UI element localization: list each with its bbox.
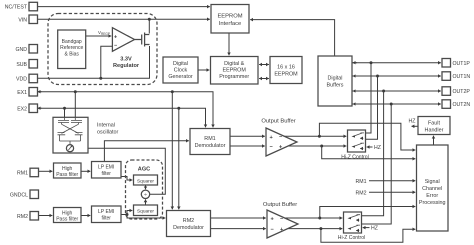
svg-text:Internal: Internal xyxy=(97,123,115,129)
wire Hi-Z 1 output A to OUT1P line xyxy=(366,63,372,133)
svg-text:& Bias: & Bias xyxy=(64,52,79,58)
svg-text:EX1: EX1 xyxy=(17,90,27,96)
svg-text:filter: filter xyxy=(101,216,111,222)
svg-text:filter: filter xyxy=(101,171,111,177)
wire digital buffers to EEPROM interface xyxy=(250,20,334,56)
svg-text:Squarer: Squarer xyxy=(137,209,154,215)
signal channel error processing box xyxy=(417,145,449,231)
wire Hi-Z 1 output B to OUT1N line xyxy=(366,76,378,139)
node EX1-oscillator junction xyxy=(74,90,77,93)
wire EX2 to oscillator xyxy=(64,108,66,117)
svg-text:+: + xyxy=(114,34,117,40)
AGC dashed enclosure xyxy=(126,160,163,219)
oscillator tail current source xyxy=(66,145,73,152)
pin OUT1N xyxy=(442,72,451,81)
svg-text:÷: ÷ xyxy=(144,192,147,198)
svg-text:Demodulator: Demodulator xyxy=(173,225,204,231)
svg-text:OUT1N: OUT1N xyxy=(453,74,471,80)
wire LP EMI 1 to squarer 1 xyxy=(121,177,132,181)
svg-text:Fault: Fault xyxy=(428,120,440,126)
svg-text:Error: Error xyxy=(426,193,438,199)
Hi-Z control 2 switches xyxy=(348,215,361,231)
svg-text:Buffers: Buffers xyxy=(327,83,344,89)
svg-text:OUT2P: OUT2P xyxy=(453,89,471,95)
svg-text:OUT1P: OUT1P xyxy=(453,61,471,67)
wire EX2 drop to RM2 demodulator xyxy=(178,108,180,209)
wire EX1 line xyxy=(38,91,42,93)
wire RM2 to high pass filter 2 xyxy=(39,215,53,217)
wire VDD rail xyxy=(38,46,150,78)
svg-text:Regulator: Regulator xyxy=(113,63,140,69)
svg-text:Hi-Z Control: Hi-Z Control xyxy=(341,154,368,160)
wire RM1 to high pass filter xyxy=(39,170,53,172)
internal oscillator box xyxy=(53,117,88,153)
svg-text:Pass filter: Pass filter xyxy=(56,217,78,223)
svg-text:Hi-Z Control: Hi-Z Control xyxy=(338,235,365,241)
node OUT2N junction xyxy=(390,103,393,106)
svg-text:NC/TEST: NC/TEST xyxy=(5,5,28,11)
squarer 2 box xyxy=(134,205,158,216)
pin RM2 xyxy=(30,212,39,221)
wire channel1 sense A to signal processor xyxy=(319,123,415,150)
node buffer2 out B junction xyxy=(319,227,322,230)
wire OUT2N line xyxy=(352,103,441,105)
svg-text:EEPROM: EEPROM xyxy=(274,72,298,78)
svg-text:oscillator: oscillator xyxy=(97,130,118,136)
wire OUT2P bus to Hi-Z control 2 xyxy=(362,91,384,216)
svg-text:OUT2N: OUT2N xyxy=(453,102,471,108)
pin GNDCL xyxy=(30,190,39,199)
node VIN-regulator junction xyxy=(148,18,151,21)
wire squarer1 to divider xyxy=(145,185,147,189)
pin OUT1P xyxy=(442,59,451,68)
pin OUT2P xyxy=(442,87,451,96)
wire channel2 sense A to signal processor xyxy=(320,207,416,219)
node OUT1P junction xyxy=(370,61,373,64)
regulator dashed enclosure xyxy=(48,14,157,85)
wire OUT2P line xyxy=(352,90,441,92)
svg-text:GND: GND xyxy=(15,47,27,53)
digital clock generator box xyxy=(163,57,198,83)
LP EMI filter 1 box xyxy=(92,162,122,179)
wire programmer-EEPROM bus A xyxy=(259,64,269,66)
node LP2 fork junction xyxy=(126,213,129,216)
svg-text:RM1: RM1 xyxy=(17,171,28,177)
squarer 1 box xyxy=(134,175,158,185)
output buffer 2 amplifier xyxy=(267,210,298,238)
svg-text:Output Buffer: Output Buffer xyxy=(263,202,297,208)
svg-text:HZ: HZ xyxy=(409,119,416,125)
svg-text:Programmer: Programmer xyxy=(219,74,249,80)
svg-text:VDD: VDD xyxy=(16,77,27,83)
wire OUT2N bus to Hi-Z control 2 xyxy=(362,104,392,224)
svg-text:Processing: Processing xyxy=(419,200,446,206)
svg-text:Squarer: Squarer xyxy=(137,178,154,184)
wire MOSFET drain to VIN xyxy=(148,19,150,33)
wire EX2 line xyxy=(38,107,42,109)
wire LP EMI 2 fork xyxy=(121,211,132,215)
oscillator cross-coupled pair xyxy=(58,117,83,144)
digital and EEPROM programmer box xyxy=(211,57,259,85)
transistor Q1 pass MOSFET xyxy=(135,33,150,47)
wire signal processor to fault handler xyxy=(433,136,435,145)
node buffer1 out B junction xyxy=(320,145,323,148)
node buffer1 out A junction xyxy=(318,135,321,138)
pin GND xyxy=(29,45,38,54)
svg-text:16 x 16: 16 x 16 xyxy=(277,64,295,70)
svg-text:Handler: Handler xyxy=(425,127,444,133)
output buffer 1 amplifier xyxy=(266,128,297,156)
wire squarer2 to divider xyxy=(145,199,147,205)
fault handler box xyxy=(418,117,450,135)
svg-text:Output Buffer: Output Buffer xyxy=(261,119,295,125)
op-amp U1 3.3V regulator xyxy=(112,28,134,52)
wire RM1 demod outputs to output buffer 1 xyxy=(230,135,265,137)
wire OUT1P line xyxy=(352,62,441,64)
svg-text:Signal: Signal xyxy=(425,179,440,185)
svg-text:VREGP: VREGP xyxy=(98,30,110,36)
node buffer2 out A junction xyxy=(318,217,321,220)
high pass filter 2 box xyxy=(54,208,82,223)
svg-text:LP EMI: LP EMI xyxy=(98,209,114,215)
wire LP EMI 1 to RM1 demodulator xyxy=(104,141,188,162)
wire bandgap to op-amp non-inverting input xyxy=(86,35,111,37)
svg-text:3.3V: 3.3V xyxy=(120,57,132,63)
wire LP EMI 2 to RM2 demodulator xyxy=(127,215,165,219)
wire regulator feedback to op-amp inverting input xyxy=(101,46,113,78)
wire HZ stub into Hi-Z control 1 xyxy=(367,146,373,148)
pin NC/TEST xyxy=(29,2,38,11)
svg-text:Generator: Generator xyxy=(168,74,192,80)
AGC divider xyxy=(141,190,149,198)
svg-text:Clock: Clock xyxy=(174,68,188,74)
svg-text:EEPROM: EEPROM xyxy=(217,14,242,20)
node OUT2P junction xyxy=(382,90,385,93)
svg-text:Channel: Channel xyxy=(422,186,442,192)
svg-text:LP EMI: LP EMI xyxy=(98,165,114,171)
node VDD feedback junction xyxy=(99,77,102,80)
svg-text:Pass filter: Pass filter xyxy=(56,172,78,178)
pin EX2 xyxy=(29,104,38,113)
Hi-Z control 1 switches xyxy=(352,133,365,149)
wire HP1 to LP EMI 1 xyxy=(81,170,90,172)
wire RM2 demod outputs to output buffer 2 xyxy=(211,217,266,219)
16x16 EEPROM box xyxy=(270,57,302,84)
svg-text:VIN: VIN xyxy=(18,17,27,23)
wire EX1 drop to RM2 demodulator xyxy=(171,92,173,210)
svg-text:Digital: Digital xyxy=(173,61,188,67)
svg-text:EX2: EX2 xyxy=(17,106,27,112)
wire output buffer 1 outputs to Hi-Z control 1 xyxy=(284,135,346,137)
wire RM2 stub to signal processor xyxy=(369,191,415,193)
digital buffers box xyxy=(318,56,352,106)
wire RM1 stub to signal processor xyxy=(369,180,415,182)
wire HZ stub into Hi-Z control 2 xyxy=(363,227,370,229)
svg-text:HZ: HZ xyxy=(371,226,378,232)
node EX2-oscillator junction xyxy=(63,107,66,110)
pin OUT2N xyxy=(442,100,451,109)
svg-text:RM1: RM1 xyxy=(204,136,215,142)
svg-text:RM2: RM2 xyxy=(183,218,194,224)
svg-text:Digital &: Digital & xyxy=(224,61,244,67)
wire AGC output to oscillator bias xyxy=(75,148,165,194)
svg-text:AGC: AGC xyxy=(138,166,150,172)
wire EX1 to oscillator xyxy=(74,92,76,118)
wire clock generator to programmer xyxy=(198,69,209,71)
wire channel2 sense B to signal processor xyxy=(321,229,415,243)
wire output buffer 2 outputs to Hi-Z control 2 xyxy=(285,217,343,219)
wire HP2 to LP EMI 2 xyxy=(81,215,90,217)
EEPROM interface box xyxy=(211,5,249,34)
node EX1-RM2demod junction xyxy=(171,90,174,93)
RM1 demodulator box xyxy=(190,129,230,155)
pin SUB xyxy=(29,60,38,69)
wire channel1 sense B to signal processor xyxy=(322,146,416,159)
svg-text:Demodulator: Demodulator xyxy=(195,143,226,149)
svg-text:RM1: RM1 xyxy=(356,179,367,185)
high pass filter 1 box xyxy=(54,163,82,178)
svg-text:Digital: Digital xyxy=(328,76,343,82)
wire VIN to EEPROM Interface xyxy=(38,18,210,20)
svg-text:SUB: SUB xyxy=(16,62,27,68)
bandgap reference box xyxy=(58,30,86,69)
svg-text:Reference: Reference xyxy=(60,45,83,51)
wire HZ output of fault handler xyxy=(412,125,419,127)
svg-text:RM2: RM2 xyxy=(17,214,28,220)
node OUT1N junction xyxy=(376,75,379,78)
wire programmer-EEPROM bus B xyxy=(259,78,269,80)
pin VIN xyxy=(29,15,38,24)
svg-text:RM2: RM2 xyxy=(356,191,367,197)
LP EMI filter 2 box xyxy=(92,206,122,223)
svg-text:−: − xyxy=(114,43,117,49)
RM2 demodulator box xyxy=(167,211,211,237)
svg-text:HZ: HZ xyxy=(374,145,381,151)
pin VDD xyxy=(29,74,38,83)
wire NC/TEST to EEPROM Interface xyxy=(38,6,210,8)
svg-text:EEPROM: EEPROM xyxy=(223,68,247,74)
Hi-Z control 1 box xyxy=(348,130,366,152)
svg-text:Interface: Interface xyxy=(219,21,242,27)
Hi-Z control 2 box xyxy=(344,212,362,233)
wire EEPROM interface to programmer xyxy=(228,33,230,55)
pin EX1 xyxy=(29,88,38,97)
wire OUT1N line xyxy=(352,75,441,77)
pin RM1 xyxy=(30,168,39,177)
svg-text:GNDCL: GNDCL xyxy=(10,192,28,198)
node EX2-RM2demod junction xyxy=(177,107,180,110)
svg-text:Bandgap: Bandgap xyxy=(62,39,82,45)
